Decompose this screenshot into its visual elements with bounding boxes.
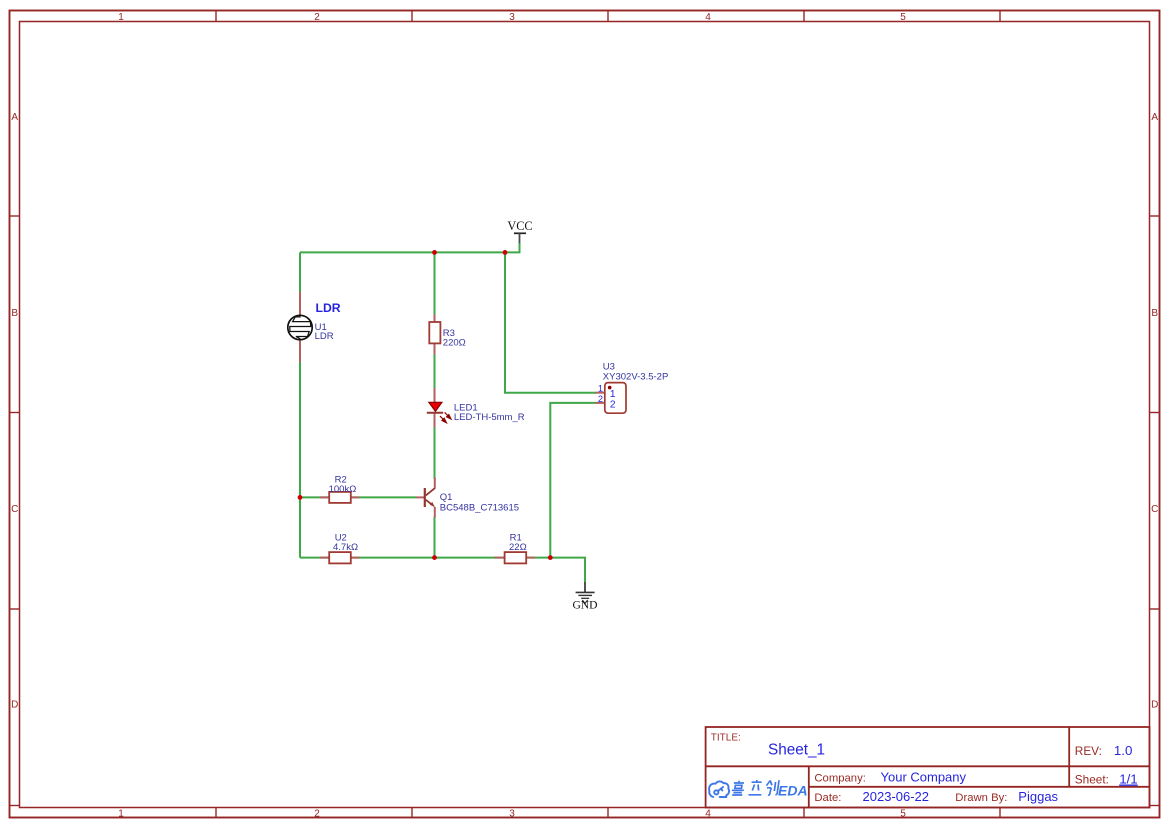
resistor R3 pins: [434, 314, 436, 354]
svg-text:3: 3: [509, 12, 515, 23]
svg-text:C: C: [11, 504, 18, 515]
connector U3 pins: [595, 393, 605, 403]
wire VCC top horizontal: [300, 243, 520, 253]
svg-text:4: 4: [705, 808, 711, 819]
svg-text:5: 5: [900, 12, 906, 23]
resistor R1 pins: [495, 557, 535, 559]
svg-text:REV:: REV:: [1075, 744, 1102, 758]
svg-text:1: 1: [118, 808, 124, 819]
LED1: [427, 402, 451, 422]
svg-text:4.7kΩ: 4.7kΩ: [333, 542, 358, 553]
svg-text:Sheet_1: Sheet_1: [768, 741, 825, 758]
svg-text:LED-TH-5mm_R: LED-TH-5mm_R: [454, 412, 525, 423]
svg-text:1/1: 1/1: [1119, 772, 1138, 787]
resistor U2 pins: [320, 557, 360, 559]
svg-text:3: 3: [509, 808, 515, 819]
wire R2 base: [300, 496, 416, 498]
svg-text:2023-06-22: 2023-06-22: [863, 789, 930, 804]
svg-text:VCC: VCC: [507, 219, 532, 233]
wire R3 branch vertical: [434, 252, 436, 390]
svg-text:220Ω: 220Ω: [443, 337, 466, 348]
svg-text:A: A: [1151, 112, 1158, 123]
svg-text:B: B: [11, 308, 18, 319]
svg-text:2: 2: [314, 808, 320, 819]
net flag VCC: [507, 219, 532, 243]
svg-text:2: 2: [610, 400, 616, 411]
photoresistor U1 pins: [299, 292, 301, 362]
resistor R3: [429, 322, 440, 343]
svg-text:1.0: 1.0: [1114, 743, 1133, 758]
svg-text:Date:: Date:: [814, 792, 841, 804]
wire U3 pin1: [505, 252, 596, 392]
connector U3: [605, 383, 626, 414]
wire LED to Q1 collector: [434, 425, 436, 479]
svg-text:LDR: LDR: [315, 331, 334, 342]
transistor Q1: [425, 488, 435, 507]
transistor Q1 pins: [416, 478, 435, 518]
svg-text:Company:: Company:: [814, 773, 866, 785]
svg-text:2: 2: [314, 12, 320, 23]
svg-text:TITLE:: TITLE:: [711, 732, 741, 743]
svg-text:LDR: LDR: [316, 301, 341, 315]
resistor R2: [329, 492, 351, 503]
svg-text:GND: GND: [572, 599, 597, 612]
resistor U2: [329, 552, 351, 563]
svg-text:100kΩ: 100kΩ: [329, 484, 357, 495]
svg-text:1: 1: [598, 384, 603, 394]
junction at emitter/bottom rail: [432, 555, 437, 560]
junction at R1/GND branch: [548, 555, 553, 560]
wire left vertical (LDR branch): [299, 252, 301, 557]
svg-text:2: 2: [598, 394, 603, 404]
svg-text:Sheet:: Sheet:: [1075, 773, 1109, 787]
svg-text:Drawn By:: Drawn By:: [955, 792, 1007, 804]
svg-text:Your Company: Your Company: [881, 770, 967, 785]
svg-text:EDA: EDA: [778, 782, 808, 798]
svg-text:4: 4: [705, 12, 711, 23]
svg-text:1: 1: [118, 12, 124, 23]
svg-text:C: C: [1151, 504, 1158, 515]
svg-text:Piggas: Piggas: [1018, 789, 1058, 804]
LED1 pins: [434, 388, 436, 427]
svg-text:5: 5: [900, 808, 906, 819]
junction at R2/left rail: [298, 495, 303, 500]
resistor R1: [505, 552, 527, 563]
resistor R2 pins: [320, 496, 360, 498]
svg-text:D: D: [11, 700, 18, 711]
junction at VCC/U3 branch: [503, 250, 508, 255]
svg-text:BC548B_C713615: BC548B_C713615: [440, 502, 519, 513]
photoresistor U1: [288, 315, 312, 339]
svg-text:A: A: [11, 112, 18, 123]
wire bottom horizontal: [300, 558, 585, 583]
junction at VCC/R3: [432, 250, 437, 255]
wire Q1 emitter to bottom: [434, 517, 436, 558]
wire U3 pin2: [550, 403, 596, 558]
svg-text:D: D: [1151, 700, 1158, 711]
svg-text:XY302V-3.5-2P: XY302V-3.5-2P: [603, 371, 669, 382]
svg-text:B: B: [1151, 308, 1158, 319]
svg-text:22Ω: 22Ω: [509, 542, 527, 553]
ground GND: [572, 582, 597, 612]
